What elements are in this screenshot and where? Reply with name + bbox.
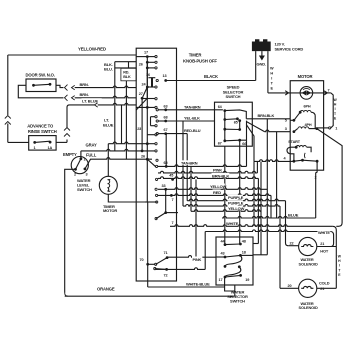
wire white bus right vertical [335,230,337,288]
hot water solenoid circle [299,237,317,255]
timer row 107 [146,106,149,109]
svg-text:BRN-BLK: BRN-BLK [212,173,229,178]
svg-text:16: 16 [146,73,150,77]
wire 18 feed drop [266,119,268,255]
svg-text:SWITCH: SWITCH [226,94,241,99]
svg-text:START: START [288,140,300,144]
svg-text:ORANGE: ORANGE [97,287,115,292]
label WHITE wire [226,220,239,225]
door switch terminal right [49,83,52,86]
water sel s-curve blade upper [225,255,242,266]
wls terminal 2 [74,168,77,171]
wire yel-blk 68 to speed switch [166,120,215,122]
svg-text:26: 26 [139,62,143,66]
wire orange stub up [234,291,236,296]
svg-text:H: H [338,259,341,263]
timer bus 33-7 [165,189,167,195]
motor overload protector circle [300,87,313,100]
svg-text:71: 71 [164,251,168,255]
water level switch circle [71,157,88,174]
plug right leg white wire [267,51,269,93]
water sel stub 48 top [239,237,241,244]
label GRAY [85,142,96,147]
wire yellow row to water 18 [158,188,267,190]
wire orange bottom run [65,295,235,297]
water sel blade 44-48 [225,243,240,246]
label PURPLE wire 2 [228,200,243,205]
svg-text:E: E [334,116,337,120]
connector chevrons left vertical [5,116,11,119]
wire speed diag to motor 3 [246,122,264,132]
wire ladder v276 motor3 [276,132,278,218]
label TAN-BRN 65 [181,160,198,165]
wire white loop 7 to 1 [331,93,333,128]
svg-text:7: 7 [328,89,330,93]
svg-text:1A: 1A [48,146,53,150]
wire 4PH diag to white bus [317,129,342,227]
svg-text:3: 3 [285,127,287,131]
svg-text:4: 4 [284,157,287,161]
svg-text:YELLOW: YELLOW [228,206,245,211]
wire purple2 drop to 20 [279,206,281,288]
water sel blade 17-19 [225,275,241,277]
wire lt blue row to timer [72,104,95,106]
svg-text:WHITE: WHITE [318,230,330,235]
svg-text:GRAY: GRAY [86,142,97,147]
svg-text:6PH: 6PH [304,105,311,109]
svg-text:W: W [338,255,342,259]
wire 18 exit row [253,254,267,256]
wire black from 13 [166,80,256,82]
wire left vertical to advance switch [7,124,9,143]
svg-text:18: 18 [242,250,246,254]
svg-text:E: E [271,87,274,91]
svg-text:24: 24 [142,82,147,86]
water sel stub 17 bottom [224,277,226,285]
speed blade 67-66 [225,121,247,141]
timer blade 27-24 [142,87,147,98]
wire motor 2 drop [316,161,318,172]
label PINK wire [213,167,224,172]
connector brn bottom [65,95,68,101]
wls terminal 1 [80,157,83,160]
svg-text:RED-BLU: RED-BLU [184,128,201,133]
svg-text:BRN.: BRN. [80,92,89,97]
timer internal bus 27 down [141,98,143,151]
svg-text:SERVICE CORD: SERVICE CORD [275,46,304,51]
svg-text:W: W [270,67,274,71]
svg-text:7: 7 [172,221,174,225]
label RED wire [213,189,221,194]
svg-text:PURPLE: PURPLE [228,201,244,206]
svg-text:W: W [333,98,337,102]
wire speed 67 drop to water 44 [224,146,226,237]
wire timer-motor-top row to timer [108,142,136,144]
wire timer motor top riser [107,144,109,177]
wire white to motor [268,92,290,94]
svg-text:21: 21 [320,287,324,291]
label YEL-BLK [184,115,201,120]
timer motor circle [99,176,117,194]
label PURPLE wire 1 [228,195,243,200]
svg-text:PURPLE: PURPLE [228,195,244,200]
svg-text:5: 5 [285,119,287,123]
svg-text:43: 43 [221,251,225,255]
wire wls-3 full to timer [85,159,97,169]
svg-text:MOTOR: MOTOR [103,208,117,213]
wire 72 riser to 44 feed [167,268,206,270]
svg-text:HOT: HOT [320,248,329,253]
svg-text:3: 3 [86,173,88,177]
label YELLOW wire [210,184,225,189]
svg-text:MOTOR: MOTOR [298,74,313,79]
connector arrow into motor [285,91,288,95]
connector chevrons lt-blue riser [64,134,70,137]
wire advance switch to lt-blue riser [56,141,67,143]
label WHITE near hot solenoid [318,230,331,235]
motor terminal 3 internal [293,130,296,133]
motor 4PH right junction [315,127,318,130]
timer bus 67-65 [165,134,167,167]
svg-text:72: 72 [164,274,168,278]
svg-text:64: 64 [218,105,223,109]
timer internal blade diag [136,98,147,110]
svg-text:GND.: GND. [257,61,266,66]
motor 6PH right hook [311,112,315,128]
svg-text:YEL-BLK: YEL-BLK [184,116,200,121]
svg-text:1: 1 [84,158,86,162]
svg-text:21: 21 [320,242,324,246]
speed internal bus left [224,111,226,141]
wire timer motor bottom [108,194,145,202]
wire speed 66 drop to water 48 [239,140,241,237]
label ORANGE wire [97,286,113,291]
wire blk row [115,61,136,63]
connector brn top [65,85,68,91]
motor start loop left [287,147,296,160]
wls internal blade [76,159,81,170]
wls terminal 3 [84,168,87,171]
connector arrow lt blue [95,103,98,107]
wire yellow2 drop [260,161,262,254]
hot solenoid coil [301,245,313,247]
speed blade 64-65 [225,110,247,119]
label box RD. BLK [121,68,136,81]
speed mid dots [223,128,226,131]
svg-text:63: 63 [164,104,168,108]
timer bus 7-9 [165,195,167,212]
svg-text:BLUE: BLUE [103,122,114,127]
wire purple row 1 to hot 22 [187,199,285,201]
wire rd-blk box stub top [128,62,130,69]
svg-text:1: 1 [335,126,337,130]
wire lt-blue branch down to timer-motor row [121,105,123,144]
wire water sel bottom U [225,285,235,291]
wire left vertical yellow-red [7,55,9,115]
wire white row [170,225,333,227]
timer box [136,48,176,281]
timer terminal 26 lower contact [146,67,149,70]
wire red-blu 67 [166,133,188,135]
wire door switch right to connector [56,85,64,87]
motor centrifugal switch [307,147,311,152]
svg-text:BRN-BLK: BRN-BLK [258,113,275,118]
wire water feed row 231 [205,230,330,232]
svg-text:RED: RED [213,190,221,195]
label BRN-BLK speed wire [257,113,274,118]
svg-text:I: I [335,107,336,111]
timer row 143 (to timer motor) [146,142,149,145]
wire brn top to timer [75,86,137,88]
wire white-blue row [148,286,225,288]
wire 71 row pink to water 43 [167,256,216,258]
svg-text:70: 70 [140,258,144,262]
svg-text:E: E [338,273,341,277]
wire blu row [115,67,136,69]
svg-text:2: 2 [315,176,317,180]
wire yellow row 2 [190,166,192,211]
wire 48 feed drop [257,178,259,243]
svg-text:YELLOW-RED: YELLOW-RED [78,47,106,52]
motor 6PH coil [300,110,311,112]
wire motor 4 row [254,160,290,162]
svg-text:45: 45 [169,174,173,178]
wire rd-blk box riser down to full row [125,81,127,159]
label BLUE wire [288,212,299,217]
wire red-blu riser down [186,134,188,201]
svg-text:BLU.: BLU. [104,67,113,72]
svg-text:7: 7 [172,198,174,202]
wire brn bottom to timer [75,96,137,98]
wire gray row to timer [81,149,136,151]
wire blue row [222,216,316,218]
door switch terminal left [32,84,35,87]
wire wls-2 empty down [65,169,76,293]
svg-text:20: 20 [288,284,292,288]
wire motor internal top [290,92,323,94]
svg-text:SWITCH: SWITCH [230,298,245,303]
svg-text:33: 33 [162,184,166,188]
timer blade 72 [155,268,167,271]
svg-text:65: 65 [234,120,238,124]
svg-text:2: 2 [74,173,76,177]
label TAN-BRN 63 [184,104,201,109]
svg-text:H: H [270,72,273,76]
timer row 134 contact [155,134,157,136]
svg-text:68: 68 [164,116,168,120]
svg-text:PINK: PINK [193,257,202,262]
svg-text:DOOR SW. N.O.: DOOR SW. N.O. [26,73,55,78]
ground arrow [261,51,263,55]
wire 45 drop to 71 wire [195,179,197,257]
svg-text:RD.: RD. [123,70,129,74]
cold water solenoid circle [299,279,317,297]
timer internal bus to 70 [147,202,149,264]
label BLACK wire [204,73,218,78]
timer row 116 [155,116,157,118]
wire 70 drop white-blue [147,264,149,287]
svg-text:T: T [334,112,337,116]
svg-text:H: H [334,103,337,107]
svg-text:KNOB-PUSH OFF: KNOB-PUSH OFF [183,59,217,64]
plug 120V service cord [252,39,271,51]
motor terminal 7 arrow [324,91,327,95]
svg-text:COLD: COLD [319,280,330,285]
wire diag 2 to motor4 riser [246,125,254,162]
motor box [290,81,323,171]
timer row 150 (gray) [141,150,144,153]
svg-text:WHITE: WHITE [226,221,239,226]
wire tan-brn 63 to speed switch [166,109,223,111]
svg-text:66: 66 [242,142,246,146]
svg-text:TIMER: TIMER [189,53,203,58]
svg-text:1: 1 [34,146,36,150]
label LT. BLUE upper [82,98,102,103]
advance switch terminal 1 [33,141,36,144]
svg-text:48: 48 [242,240,246,244]
wire red drop to blue [270,195,272,218]
svg-text:I: I [271,77,272,81]
svg-text:TAN-BRN: TAN-BRN [181,161,198,166]
label BRN top [79,81,90,86]
wire brn-blk speed to motor 5 [246,118,290,120]
svg-text:BLUE: BLUE [288,213,299,218]
svg-text:FULL: FULL [86,153,97,158]
switch ADVANCE TO RINSE box [29,136,56,151]
svg-text:RINSE SWITCH: RINSE SWITCH [28,129,57,134]
label RED-BLU [184,128,201,133]
svg-text:22: 22 [290,241,294,245]
wire brn-blk row to water 48 [158,177,258,179]
wire motor 3 row [265,130,291,132]
timer internal bus 17 down [146,57,148,202]
svg-text:67: 67 [164,128,168,132]
svg-text:65: 65 [164,161,168,165]
wire blue riser to motor 2 [315,173,317,219]
wire tan-brn 65 row [158,165,247,167]
door switch blade [34,84,51,85]
motor 6PH blade [294,112,300,120]
svg-text:67: 67 [218,141,222,145]
wire blk riser down to gray row [114,62,116,151]
motor terminal 4 internal [290,160,294,162]
wire red row [158,194,271,196]
wire 18 exit [240,254,253,256]
label BRN-BLK wire [212,173,230,178]
wire purple1 drop to 22 [286,201,289,246]
label YELLOW-RED [78,46,105,51]
timer blade 70-71 [156,258,167,265]
svg-text:BLK: BLK [123,75,131,79]
plug left leg black wire [255,51,257,80]
svg-text:BLACK: BLACK [204,74,218,79]
advance switch terminal 1A [49,141,52,144]
motor terminal 5 internal [293,119,296,122]
svg-text:TAN-BRN: TAN-BRN [184,104,201,109]
wire lt-blue riser up [67,105,72,128]
wire door switch left loop [18,85,63,98]
water sel s-curve blade lower [225,267,241,277]
water sel blade 43-18 [225,255,240,257]
water sel stub 44 top [224,237,226,245]
svg-text:19: 19 [245,278,249,282]
wire pink row to motor 4 [256,161,258,173]
svg-text:T: T [271,82,274,86]
wire purple row 2 to cold 20 [182,121,184,206]
timer internal bus from 26 [146,62,148,98]
svg-text:17: 17 [144,50,148,54]
svg-text:4PH: 4PH [305,123,312,127]
speed selector box [215,102,253,146]
svg-text:PINK: PINK [213,168,222,173]
svg-text:T: T [338,268,341,272]
timer row 202 contact [156,201,158,203]
label BRN bottom [79,92,90,97]
label PINK 71 wire [192,257,202,262]
svg-text:13: 13 [163,74,167,78]
switch DOOR SW. N.O. box [26,79,56,92]
timer blade 26b [147,159,156,167]
svg-text:SWITCH: SWITCH [77,187,92,192]
advance switch blade [35,141,50,142]
svg-text:23: 23 [137,127,141,131]
wire ladder v254 [253,161,255,226]
svg-text:EMPTY: EMPTY [63,152,77,157]
svg-text:27: 27 [139,92,143,96]
timer motor coil symbol [108,180,111,192]
svg-text:YELLOW: YELLOW [210,184,227,189]
svg-text:LT. BLUE: LT. BLUE [82,99,99,104]
svg-text:SOLENOID: SOLENOID [299,305,318,310]
label YELLOW wire 2 [228,206,243,211]
motor START coil [296,145,306,147]
cold solenoid coil [301,286,313,288]
wire yellow-red top run [8,54,136,56]
wire wls-1 gray riser [80,151,82,159]
svg-text:26: 26 [141,155,145,159]
water selector box [216,237,253,285]
svg-text:SOLENOID: SOLENOID [299,261,318,266]
label WHITE-BLUE wire [186,281,211,286]
wire speed 65 drop to tan-brn row [246,140,248,166]
motor 4PH coil [298,127,309,129]
svg-text:17: 17 [219,278,223,282]
svg-text:BRN.: BRN. [80,82,89,87]
svg-text:WHITE-BLUE: WHITE-BLUE [186,281,210,286]
svg-text:I: I [339,264,340,268]
